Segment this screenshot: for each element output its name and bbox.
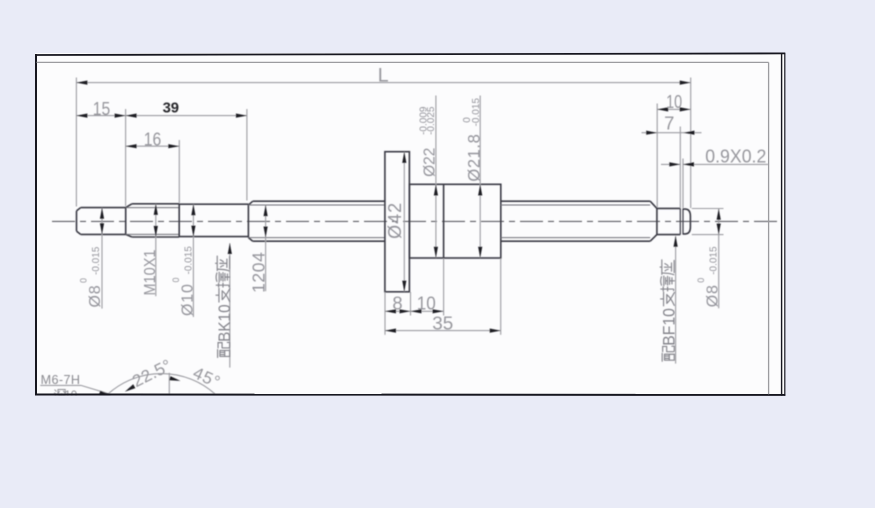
arc arrow 22.5 left: [125, 384, 136, 392]
vertical dimension M10X1: [155, 204, 157, 296]
M10 thread chamfer bottom: [126, 234, 132, 237]
drawing sheet paper: [35, 53, 785, 396]
dimension line 0.9X0.2 with outside arrows: [661, 163, 680, 165]
angular dimension arc bottom left: [108, 374, 215, 394]
M10 thread end line: [178, 204, 180, 237]
screw left chamfer top: [248, 201, 252, 205]
svg-text:35: 35: [432, 313, 453, 334]
svg-text:0: 0: [78, 278, 88, 283]
svg-text:10: 10: [666, 91, 682, 112]
dimension line 10 right end: [657, 108, 691, 110]
nut flange Ø42: [385, 152, 410, 292]
label Ø21.8 0/-0.015: [462, 98, 484, 182]
bottom margin strip: [0, 396, 875, 508]
vertical dimension Ø22 nut: [435, 96, 437, 258]
extension line flange left below: [384, 292, 386, 335]
leader line BF10 support label: [675, 236, 677, 363]
M10 thread chamfer top: [126, 204, 132, 208]
vertical dimension Ø8 left journal: [101, 208, 103, 309]
dimension line 8 flange thickness: [385, 310, 411, 312]
left journal Ø8 bottom edge: [81, 233, 126, 235]
svg-text:39: 39: [163, 101, 179, 117]
sheet inner frame top: [37, 61, 769, 63]
svg-text:Ø8: Ø8: [87, 285, 104, 308]
extension line flange right below: [410, 292, 412, 316]
extension line right journal bottom: [692, 234, 724, 236]
dimension line 7 with outside arrows: [642, 132, 702, 134]
extension line right end of shaft: [690, 78, 692, 209]
screw thread root top left section: [248, 204, 385, 206]
arc arrow 22.5 right: [169, 376, 180, 381]
right journal Ø8 bottom edge: [657, 234, 680, 236]
shaft centre line: [52, 220, 781, 222]
dimension line L: [76, 82, 690, 84]
svg-text:M10X1: M10X1: [142, 249, 159, 295]
extension line step 15: [125, 109, 127, 206]
right journal Ø8 top edge: [657, 207, 680, 209]
depth note shen10 (clipped by border): [54, 390, 66, 399]
extension line nut right below: [500, 258, 502, 335]
label 1204 ballscrew spec: [248, 252, 268, 293]
label Ø42 flange: [385, 202, 405, 239]
label M10X1: [142, 249, 159, 295]
sheet outer border right double line: [781, 53, 783, 396]
radial tick on arc: [168, 373, 170, 394]
screw outer top edge left section: [253, 200, 385, 202]
screw thread root bottom left section: [248, 237, 385, 239]
extension line left end of shaft: [75, 78, 77, 207]
vertical dimension Ø10: [192, 204, 194, 317]
svg-text:0: 0: [696, 278, 706, 283]
dimension line 15: [76, 115, 125, 117]
sheet outer border top: [35, 53, 785, 55]
M10 major top edge: [132, 203, 179, 205]
svg-text:-0.015: -0.015: [709, 246, 720, 275]
screw outer bottom edge left section: [253, 240, 385, 242]
svg-text:L: L: [378, 65, 389, 87]
leader line BK10 support label: [229, 243, 231, 367]
leader line M6-7H: [40, 385, 108, 393]
M10 thread root bottom: [126, 233, 180, 235]
nut body: [409, 184, 500, 258]
extension line right journal top: [692, 208, 724, 210]
screw left section end face: [247, 205, 249, 238]
svg-text:8: 8: [392, 293, 402, 314]
label pei BF10 support seat: [660, 260, 678, 361]
leader arrowhead M6-7H: [99, 391, 111, 395]
extension line screw start 39: [246, 109, 248, 201]
sheet inner frame right: [768, 62, 770, 394]
vertical dimension 1204 screw: [265, 205, 267, 291]
left journal Ø8 top edge: [81, 207, 126, 209]
label Ø22 -0.009/-0.025: [418, 106, 438, 177]
left journal bottom chamfer: [77, 231, 81, 234]
label pei BK10 support seat: [216, 256, 234, 357]
vertical dimension Ø8 right journal: [718, 209, 720, 309]
svg-text:7: 7: [664, 113, 674, 134]
right journal end cap with rounded end: [683, 209, 690, 234]
extension line groove left: [679, 127, 681, 208]
sheet outer border bottom: [35, 394, 785, 396]
screw thread root top right section: [501, 204, 650, 206]
circlip groove left wall: [679, 208, 681, 234]
svg-text:10: 10: [417, 293, 436, 314]
dimension line 10 nut: [411, 310, 444, 312]
extension line nut step below: [443, 258, 445, 315]
nut body division line: [443, 184, 445, 258]
circlip groove right wall: [682, 208, 684, 234]
screw thread root bottom right section: [501, 237, 650, 239]
svg-text:Ø21.8: Ø21.8: [465, 134, 483, 182]
svg-text:16: 16: [144, 128, 162, 149]
screw outer bottom edge right section: [501, 240, 650, 242]
dimension line 39: [126, 115, 247, 117]
svg-text:-0.025: -0.025: [426, 106, 437, 135]
sheet outer border left: [35, 54, 37, 395]
left journal end face: [76, 211, 78, 231]
extension line groove right: [682, 159, 684, 209]
svg-text:Ø8: Ø8: [705, 284, 722, 307]
screw left chamfer bottom: [248, 238, 252, 242]
svg-text:M6-7H: M6-7H: [41, 373, 81, 387]
svg-text:-0.015: -0.015: [471, 98, 482, 127]
Ø10 journal bottom edge: [179, 236, 248, 238]
step face Ø8 to M10: [125, 208, 127, 235]
svg-text:-0.015: -0.015: [91, 246, 102, 275]
svg-text:-0.015: -0.015: [184, 246, 195, 275]
svg-text:15: 15: [93, 98, 111, 119]
M10 major bottom edge: [132, 236, 179, 238]
svg-text:Ø22: Ø22: [422, 148, 439, 177]
screw right end chamfer top: [650, 201, 657, 208]
label Ø8 0/-0.015 right journal: [696, 246, 722, 307]
label Ø10 0/-0.015: [171, 246, 197, 316]
svg-text:0: 0: [171, 277, 181, 282]
left journal top chamfer: [77, 208, 81, 211]
dimension line 16: [126, 145, 180, 147]
svg-text:Ø42: Ø42: [385, 202, 405, 239]
svg-text:0.9X0.2: 0.9X0.2: [705, 146, 766, 166]
screw right end chamfer bottom: [650, 235, 657, 242]
dimension line 35: [385, 330, 501, 332]
extension line right journal start: [656, 104, 658, 208]
vertical dimension Ø21.8 nut: [479, 96, 481, 258]
svg-text:Ø10: Ø10: [180, 283, 197, 316]
extension line thread end 16: [178, 140, 180, 203]
screw outer top edge right section: [501, 200, 650, 202]
Ø10 journal top edge: [179, 203, 248, 205]
M10 thread root top: [126, 207, 180, 209]
step face screw to right journal: [656, 208, 658, 234]
svg-text:BK10: BK10: [216, 304, 234, 342]
label Ø8 0/-0.015 left journal: [78, 246, 104, 307]
vertical dimension Ø42 flange: [403, 152, 405, 292]
svg-text:1204: 1204: [248, 252, 268, 293]
svg-text:BF10: BF10: [661, 308, 679, 346]
